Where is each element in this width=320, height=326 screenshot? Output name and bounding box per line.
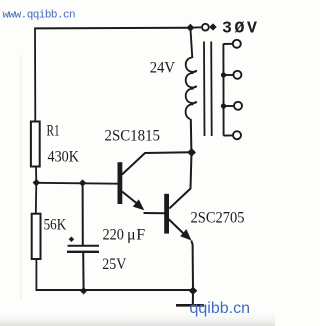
node top junction xyxy=(186,24,194,32)
wire 56K bottom xyxy=(35,259,37,291)
transistor Q1 collector xyxy=(122,152,192,174)
wire capacitor upper xyxy=(82,183,84,246)
wire node down to Q2 collector xyxy=(169,152,191,208)
svg-text:qqibb.cn: qqibb.cn xyxy=(190,300,251,317)
scan bottom gradient xyxy=(0,310,275,326)
node cap top xyxy=(79,179,86,186)
transistor Q2 2SC2705 base bar xyxy=(164,194,169,234)
wire left rail xyxy=(34,28,36,123)
label +30V xyxy=(209,19,259,38)
svg-text:3ØV: 3ØV xyxy=(222,19,260,38)
secondary tap 1 xyxy=(223,40,240,48)
svg-text:2SC2705: 2SC2705 xyxy=(191,210,245,227)
wire node to coil bottom xyxy=(190,119,193,152)
svg-text:www.qqibb.cn: www.qqibb.cn xyxy=(3,9,76,21)
svg-text:25V: 25V xyxy=(102,256,126,273)
svg-text:220μF: 220μF xyxy=(103,227,146,244)
resistor 56K xyxy=(32,214,41,259)
svg-text:24V: 24V xyxy=(150,60,176,77)
transformer primary coil 24V xyxy=(186,58,197,119)
ground xyxy=(176,291,204,306)
transistor Q2 emitter with arrow xyxy=(169,219,194,290)
capacitor C1 polarity plus xyxy=(69,237,75,243)
node collector junction xyxy=(187,148,196,157)
node ground junction xyxy=(189,287,197,295)
transistor Q1 2SC1815 base bar xyxy=(118,162,123,204)
svg-text:R1: R1 xyxy=(47,123,60,140)
transformer core xyxy=(204,42,212,137)
wire bottom rail xyxy=(36,289,194,291)
svg-text:2SC1815: 2SC1815 xyxy=(105,128,161,145)
transistor Q1 emitter with arrow xyxy=(122,192,165,214)
svg-text:56K: 56K xyxy=(44,216,67,233)
wire R1 bottom xyxy=(35,166,37,183)
wire base rail xyxy=(36,182,118,185)
wire 56K top xyxy=(35,183,38,214)
wire coil top lead xyxy=(190,28,192,58)
node divider xyxy=(33,179,40,186)
secondary tap 4 xyxy=(224,131,241,139)
wire top rail xyxy=(35,27,191,30)
secondary tap 3 xyxy=(221,102,242,110)
wire junction to terminal xyxy=(190,26,201,28)
wire capacitor lower xyxy=(82,253,84,291)
secondary tap 2 xyxy=(221,71,242,79)
transformer secondary winding line xyxy=(222,44,224,136)
capacitor C1 xyxy=(67,246,99,252)
terminal +30V xyxy=(202,24,209,31)
node cap bottom xyxy=(80,287,87,294)
resistor R1 xyxy=(31,122,40,167)
scan artifact faint line xyxy=(20,55,22,300)
svg-text:430K: 430K xyxy=(48,148,80,165)
